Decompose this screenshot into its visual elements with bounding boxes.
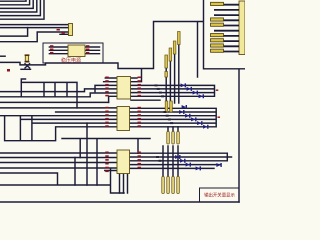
svg-text:输出开关量显示: 输出开关量显示 bbox=[204, 191, 235, 198]
svg-text:稳压电源: 稳压电源 bbox=[61, 57, 81, 64]
